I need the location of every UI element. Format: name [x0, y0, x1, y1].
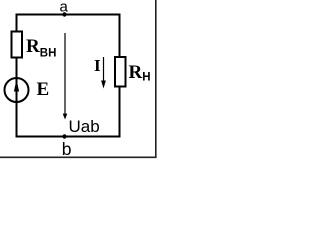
- source E: [5, 78, 29, 102]
- svg-text:Н: Н: [142, 72, 150, 84]
- node b: [62, 134, 72, 159]
- svg-text:Uab: Uab: [69, 117, 100, 136]
- wire left lower: [16, 102, 18, 138]
- svg-text:E: E: [37, 79, 50, 100]
- svg-text:ВН: ВН: [40, 47, 57, 59]
- svg-text:a: a: [60, 0, 69, 16]
- wire top: [17, 14, 121, 16]
- svg-text:b: b: [62, 139, 72, 159]
- resistor R_н: [115, 57, 126, 87]
- resistor R_вн: [12, 32, 23, 58]
- svg-text:R: R: [26, 36, 40, 57]
- voltage arrow Uab: [63, 33, 68, 120]
- wire left upper: [16, 14, 18, 33]
- wire right lower: [119, 87, 121, 138]
- current arrow I: [101, 57, 106, 89]
- wire right upper: [119, 14, 121, 59]
- label Rвн: [26, 36, 56, 59]
- svg-text:R: R: [129, 62, 143, 83]
- svg-text:I: I: [94, 56, 101, 75]
- wire left middle: [16, 58, 18, 79]
- wire bottom: [17, 136, 121, 138]
- node a: [60, 0, 69, 17]
- label Rн: [129, 62, 151, 84]
